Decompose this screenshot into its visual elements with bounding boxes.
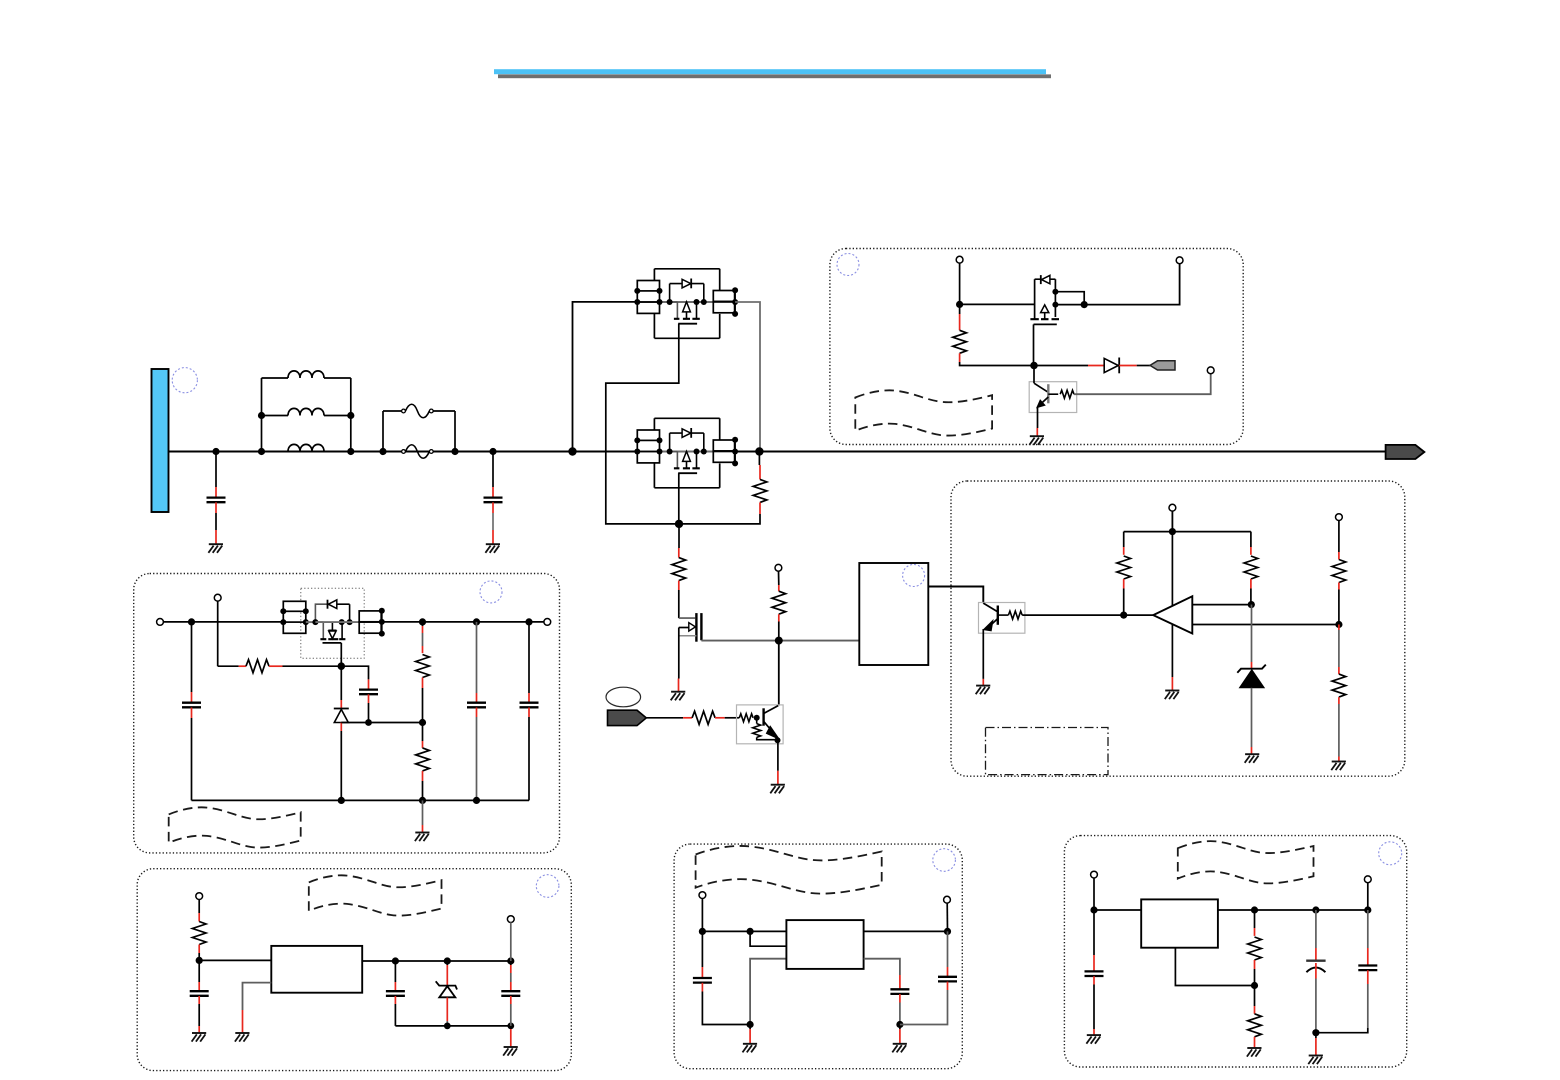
node output at C9 (507, 957, 514, 964)
wire row B mid (315, 621, 359, 623)
resistor R4 (input series) (646, 711, 739, 724)
terminal D2 (507, 916, 514, 923)
wire output rail B (382, 621, 544, 623)
node gate junction A (1030, 362, 1038, 370)
title underline gray shadow (498, 74, 1051, 78)
wire Q2 gate route (678, 473, 680, 524)
node E output junction (944, 928, 951, 935)
ground GND18 (1308, 1056, 1323, 1065)
node B input junction (188, 618, 195, 625)
ground GND7 (1165, 691, 1180, 700)
terminal supply pullup (775, 564, 782, 571)
annotation dash-dot rect (986, 728, 1109, 775)
wire enable jog (750, 931, 786, 946)
wire inductor left rail (261, 378, 263, 452)
wire gray row through mid block (660, 451, 736, 453)
panel D dotted border (137, 869, 571, 1071)
wire regulator E output (864, 930, 948, 932)
capacitor C1 (207, 452, 226, 545)
panel B dotted border (134, 574, 560, 853)
wire input to regulator F (1094, 909, 1141, 911)
annotation banner E (696, 846, 882, 894)
wire comparator ground leg (1171, 532, 1173, 677)
wire Q6 gate down (340, 643, 342, 666)
resistor R5 (gate-source) (953, 304, 1034, 365)
capacitor C9 (501, 961, 520, 1026)
node bottom rail at D2 (338, 797, 345, 804)
transistor Q2 block (parallel PMOS with resistors, on bus) (634, 418, 738, 488)
tag output A (gray) (1150, 361, 1175, 370)
wire ground stem B (422, 800, 424, 825)
ground GND9 (1331, 762, 1346, 771)
wire row B left (306, 621, 316, 623)
node F input junction (1090, 906, 1097, 913)
regulator U6 (271, 946, 362, 993)
resistor R3 (pull-up) (772, 571, 786, 641)
ground GND10 (415, 833, 430, 842)
capacitor C12 (900, 931, 957, 1024)
wire fuse right rail (454, 411, 456, 452)
optocoupler U4 input transistor (979, 603, 1025, 686)
node bottom rail at Z2 (444, 1023, 451, 1030)
ground GND4 (opto emitter) (770, 785, 785, 794)
node output at Z2 (444, 957, 451, 964)
wire bottom rail D (395, 1025, 510, 1027)
capacitor C4 (gate) (341, 666, 378, 722)
wire regulator F adj pin (1175, 948, 1254, 986)
optocoupler U2 output transistor (737, 705, 784, 785)
ground GND16 (1086, 1035, 1101, 1044)
wire left rail up to top FET block (573, 302, 638, 452)
node divider mid B (419, 719, 426, 726)
resistor R6 (base) (1048, 374, 1210, 399)
inductor L2 (262, 408, 351, 415)
capacitor C7 (190, 960, 209, 1032)
capacitor C5 (467, 618, 486, 800)
zener diode Z2 (436, 961, 457, 1026)
ground GND12 (235, 1033, 250, 1042)
wire terminal B2 down (217, 601, 219, 666)
node gate junction (675, 520, 683, 528)
capacitor C11 (890, 975, 909, 1025)
regulator U8 (1141, 899, 1218, 947)
node gate drive junction (775, 637, 783, 645)
wire junction down to optocoupler (778, 641, 780, 706)
capacitor C8 (386, 961, 405, 1026)
terminal E2 (944, 896, 951, 903)
node D input junction (196, 957, 203, 964)
terminal C1 (1169, 504, 1176, 511)
wire control box to opto LED (928, 587, 983, 604)
node F output at R16 (1251, 906, 1258, 913)
connector J1 (battery input bar) (152, 369, 169, 512)
node bus left rail junction (568, 447, 576, 455)
ground GND13 (503, 1047, 518, 1056)
node rail C junction (1169, 528, 1176, 535)
wire Q1 gate route (606, 324, 679, 524)
capacitor C14 (polarized) (1306, 910, 1325, 1033)
fuse F2 (402, 445, 434, 459)
terminal B2 (214, 594, 221, 601)
node gate junction B (338, 662, 346, 670)
resistor R16 (divider top) (1248, 910, 1262, 986)
node fuse rail left (379, 448, 386, 455)
capacitor C2 (484, 452, 503, 545)
wire Q4 drain to terminal A2 (1055, 264, 1179, 305)
wire terminal F2 down (1367, 883, 1369, 911)
wire Q4 gate down (1033, 324, 1035, 365)
wire terminal E2 down (946, 903, 948, 932)
terminal A1 (956, 256, 963, 263)
node F ground junction (1312, 1029, 1319, 1036)
transistor Q4 PMOS (1030, 275, 1059, 324)
capacitor C6 (520, 618, 539, 800)
wire regulator D ground pin (243, 983, 272, 1010)
annotation circle panel A (837, 254, 859, 276)
transistor Q6 PMOS (pass element) (312, 600, 352, 643)
terminal A3 (1207, 367, 1214, 374)
annotation circle panel B (480, 581, 502, 603)
terminal C2 (1336, 514, 1343, 521)
terminal D1 (196, 893, 203, 900)
wire comparator input lower (1192, 624, 1339, 626)
wire ground stem D right (510, 1029, 512, 1047)
panel C dotted border (951, 481, 1405, 776)
wire fuse left rail (382, 411, 384, 452)
ground GND14 (743, 1044, 758, 1053)
terminal B3 (544, 619, 551, 626)
wire top block right rail down to bus (735, 302, 760, 452)
capacitor C10 (693, 931, 750, 1024)
node divider junction C (1335, 621, 1342, 628)
wire regulator F output (1218, 909, 1368, 911)
fuse F1 (383, 404, 455, 418)
wire regulator D output (362, 960, 511, 962)
ground GND5 (1029, 436, 1044, 445)
wire input rail B (163, 621, 283, 623)
node inductor rail left lower (258, 448, 265, 455)
node E ground junction (747, 1021, 754, 1028)
annotation banner F (1178, 841, 1314, 883)
annotation circle near J1 (172, 368, 197, 393)
resistor R15 (192, 899, 206, 960)
node bus junction at C1 (212, 448, 219, 455)
node F divider junction (1251, 982, 1258, 989)
node bottom rail at C9 (507, 1023, 514, 1030)
bus output tag (1386, 445, 1425, 459)
annotation ellipse (input net) (606, 687, 641, 707)
wire mid rail B (341, 722, 422, 724)
resistor R1 (gate pull, from bus) (679, 452, 767, 524)
node inductor rail right lower (347, 448, 354, 455)
terminal B1 (157, 619, 164, 626)
inductor L1 (262, 371, 351, 378)
wire ground stem E right (899, 1025, 901, 1030)
input tag SC (608, 710, 647, 725)
transistor Q1 block (parallel PMOS with resistors, top) (634, 269, 738, 339)
ground GND1 (208, 544, 223, 553)
resistor R2 (gate series) (672, 524, 686, 618)
transistor Q3 NMOS (679, 613, 702, 691)
zener diode Z1 (1237, 605, 1266, 754)
inductor L3 (288, 444, 324, 451)
wire regulator E ground pin (750, 959, 786, 1025)
node bus right rail junction (755, 447, 763, 455)
wire inductor right rail (350, 378, 352, 452)
resistor R7 (opto base) (998, 611, 1124, 619)
diode D1 (1034, 358, 1150, 374)
wire Q4 drain loop (1055, 292, 1084, 305)
wire terminal E1 down (701, 898, 703, 931)
annotation banner D (309, 875, 442, 915)
capacitor C3 (182, 622, 201, 801)
node bottom rail at C5 (473, 797, 480, 804)
resistor R14 (divider bottom) (416, 723, 430, 801)
node drain loop junction (1081, 301, 1088, 308)
node inductor mid-left (258, 412, 265, 419)
wire to regulator D (199, 959, 271, 961)
node bottom rail at R14 (419, 797, 426, 804)
wire regulator E bypass pin (864, 959, 900, 975)
regulator U7 (786, 920, 863, 969)
ground GND15 (892, 1044, 907, 1053)
wire input to regulator E (702, 930, 786, 932)
wire main bus (169, 451, 1386, 453)
node output at C8 (392, 957, 399, 964)
panel F dotted border (1064, 836, 1406, 1067)
wire terminal A1 down (959, 263, 961, 305)
annotation banner A (855, 390, 992, 435)
node E enable junction (747, 928, 754, 935)
wire comparator output (1124, 614, 1154, 616)
wire terminal F1 down (1093, 878, 1095, 910)
terminal F1 (1091, 871, 1098, 878)
ground GND6 (opto input) (976, 686, 991, 695)
node comparator input junction (1120, 612, 1127, 619)
terminal F2 (1364, 876, 1371, 883)
annotation circle U3 (903, 565, 925, 587)
ground GND17 (1247, 1048, 1262, 1057)
ground GND8 (1245, 754, 1260, 763)
resistor pair RP1 (left stack) (280, 601, 309, 633)
terminal A2 (1176, 257, 1183, 264)
annotation circle panel E (933, 849, 956, 872)
node zener junction (1248, 601, 1255, 608)
wire supply rail C (1124, 511, 1251, 532)
node C4 bottom (365, 719, 372, 726)
resistor pair RP2 (right stack) (359, 608, 385, 637)
resistor R11 (1332, 625, 1346, 762)
panel E dotted border (674, 844, 962, 1069)
node A1 junction (956, 301, 963, 308)
node fuse rail right (451, 448, 458, 455)
terminal E1 (699, 892, 706, 899)
transistor Q5 NPN (1029, 366, 1077, 437)
node E input junction (699, 928, 706, 935)
node E ground junction 2 (896, 1021, 903, 1028)
selection dotted rect around Q6 (301, 588, 364, 658)
wire Q3 gate to control box (701, 639, 858, 642)
capacitor C13 (1085, 910, 1104, 1035)
control box U3 (859, 563, 928, 665)
resistor R10 (1332, 520, 1346, 624)
node rail B at R13 (419, 618, 426, 625)
panel A dotted border (830, 249, 1243, 445)
node F output at C14 (1312, 906, 1319, 913)
title underline blue bar (494, 69, 1046, 74)
resistor R13 (divider top) (416, 622, 430, 723)
ground GND2 (485, 544, 500, 553)
resistor R8 (1117, 532, 1131, 616)
annotation circle panel D (536, 875, 559, 898)
resistor R12 (gate drive) (218, 660, 342, 673)
annotation circle panel F (1379, 842, 1402, 865)
wire bottom rail B (192, 799, 530, 801)
wire A1 to PMOS source (960, 303, 1035, 305)
diode D2 (gate clamp) (334, 666, 349, 800)
ground GND11 (192, 1033, 207, 1042)
node bus junction at C2 (489, 448, 496, 455)
ground GND3 (NMOS source) (671, 692, 686, 701)
node inductor mid-right (347, 412, 354, 419)
annotation banner B (169, 807, 301, 847)
capacitor C15 (1316, 910, 1377, 1033)
resistor R9 (1244, 532, 1258, 605)
node F output at C15 (1364, 906, 1371, 913)
wire comparator input upper (1192, 604, 1251, 606)
op-amp U5 (comparator, pointing left) (1153, 596, 1192, 633)
resistor R17 (divider bottom) (1248, 986, 1262, 1048)
wire ground stem F (1315, 1033, 1317, 1038)
wire terminal D2 down (510, 922, 512, 961)
wire ground stem E left (749, 1025, 751, 1030)
